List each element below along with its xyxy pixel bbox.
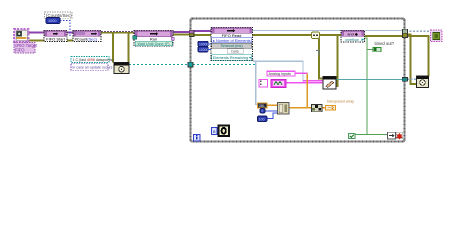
svg-text:1000: 1000 xyxy=(48,19,56,23)
svg-text:transposed array: transposed array xyxy=(327,99,354,103)
svg-text:Wait Until Done (F): Wait Until Done (F) xyxy=(137,42,170,46)
svg-text:▸ Number of Elements: ▸ Number of Elements xyxy=(213,39,251,43)
svg-text:Timeout (ms): Timeout (ms) xyxy=(220,44,243,48)
svg-text:#Count(Sec): #Count(Sec) xyxy=(75,37,98,42)
svg-text:10000: 10000 xyxy=(199,42,209,46)
svg-text:DBL: DBL xyxy=(259,104,265,108)
svg-text:0: 0 xyxy=(262,109,264,113)
svg-text:Elements Remaining ▾: Elements Remaining ▾ xyxy=(213,56,251,60)
svg-text:FIFO Read: FIFO Read xyxy=(222,33,242,38)
svg-text:and ◆: and ◆ xyxy=(347,32,358,36)
svg-text:Data: Data xyxy=(231,49,239,53)
svg-text:FIFO: FIFO xyxy=(15,48,25,53)
svg-text:Analog inputs: Analog inputs xyxy=(269,72,292,76)
svg-text:1 C (last 4096 datapoints): 1 C (last 4096 datapoints) xyxy=(73,58,114,62)
svg-text:in case an update occurs: in case an update occurs xyxy=(73,66,113,70)
svg-text:Run: Run xyxy=(150,37,157,42)
svg-text:timed out?: timed out? xyxy=(375,41,395,46)
svg-text:B: B xyxy=(213,129,216,134)
svg-text:100: 100 xyxy=(259,118,265,122)
svg-text:10000: 10000 xyxy=(199,48,209,52)
svg-text:FIFO Start: FIFO Start xyxy=(46,37,66,42)
svg-text:overflow: overflow xyxy=(345,38,359,42)
